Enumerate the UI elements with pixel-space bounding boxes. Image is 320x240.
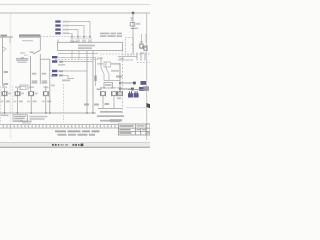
- connector lug lower (blue): [139, 87, 145, 91]
- wire: faint ground line right: [126, 107, 147, 109]
- switch contacts: [101, 68, 104, 74]
- wire: line into connector box: [128, 89, 143, 91]
- plug housing X4 (blue comb): [134, 91, 139, 97]
- wire: terminal 30 bus left segment: [0, 36, 13, 38]
- pressure switch B3 with caption: [16, 57, 29, 59]
- wire: top frame line upper: [0, 4, 150, 6]
- wire: feed drop from rail: [132, 13, 134, 54]
- label: text above control unit right: [100, 33, 122, 37]
- valve group Y2: [13, 87, 24, 114]
- wire: drop x87 to ground bus: [86, 51, 88, 114]
- label: highlighted legend box under bus: [13, 115, 28, 122]
- connector pins right column: [137, 53, 145, 61]
- label: gauge text x40.3: [42, 80, 48, 83]
- fuse F1 on feed: [131, 17, 134, 19]
- wire: branch to connector row upper: [120, 82, 134, 84]
- node: junction at 120,89: [119, 88, 121, 90]
- connector symbol row7: [59, 70, 63, 72]
- valve group Y4: [42, 86, 52, 113]
- label: blue link row6: [52, 60, 57, 62]
- label: text right of x95 wires lower: [97, 63, 103, 65]
- label: text after row8 step: [62, 80, 70, 82]
- wire: row5 line: [58, 56, 96, 58]
- label: gray part row3: [63, 29, 70, 31]
- wire: cluster bottom line: [104, 80, 120, 82]
- label: tag x30.4: [32, 73, 37, 75]
- label: marks near switch: [20, 52, 25, 54]
- wire: drop x93 to ground bus: [92, 51, 94, 114]
- wire: vertical feed x49.8: [49, 59, 51, 113]
- title block table: [119, 124, 151, 135]
- label: text in cluster: [111, 63, 120, 65]
- wire: terminal 30 bus caption segment: [19, 36, 41, 38]
- label: tag on x87 wire: [84, 104, 89, 106]
- label: ruler track numbers: [3, 126, 116, 127]
- wire: row3 to connector: [69, 30, 78, 39]
- section divider dashed x12.8: [12, 86, 14, 122]
- wire: lines under A1: [118, 56, 137, 58]
- wire: row4 to connector: [69, 33, 72, 38]
- label: document caption line 1: [55, 130, 100, 132]
- wire: right edge drop x122.5: [122, 44, 124, 114]
- pump motor M1: [117, 87, 123, 99]
- label: small note above switch: [22, 40, 33, 41]
- label: pin numbers: [70, 38, 92, 39]
- section divider dashed x63.5: [63, 84, 65, 122]
- wire: row1 to connector: [69, 22, 90, 39]
- section divider dashed x0.7: [0, 86, 2, 122]
- label: title block texts: [120, 125, 134, 127]
- label: small text above ruler left: [20, 121, 32, 122]
- wire: drop x79 below unit: [78, 51, 80, 60]
- node: junction at 120,83: [119, 82, 121, 84]
- label: text left of sub-lines: [119, 58, 124, 60]
- wire: valve feeds right of A1: [141, 34, 143, 43]
- toolbar glyphs: [52, 144, 83, 147]
- label: wire tag on left drop lower: [4, 83, 9, 85]
- node: ticks at dashed bus crossings: [71, 36, 91, 38]
- label: tag on x120: [116, 76, 122, 78]
- connector box right (gray): [143, 86, 149, 91]
- wire: dashed stub right: [137, 62, 150, 64]
- current track ruler: [0, 123, 119, 125]
- wire: dashed harness line: [55, 59, 98, 61]
- viewer toolbar band: [0, 142, 150, 147]
- label: tick text under valves: [140, 52, 144, 54]
- wire: bus under control unit: [58, 53, 98, 55]
- connector lug upper (blue): [141, 81, 147, 85]
- switch S1 contact: [39, 37, 41, 50]
- connector X2 small box bottom-left: [20, 85, 28, 90]
- label: gray part row1: [63, 21, 70, 23]
- wire: verticals in cluster: [100, 57, 102, 68]
- wire: sub bus under sensors: [98, 108, 122, 110]
- wire: right feed x120: [119, 63, 121, 95]
- label: blue link row2: [55, 24, 60, 26]
- fuse F2 terminal ticks on left drop: [3, 46, 5, 48]
- wire: row8 line with step: [63, 75, 74, 78]
- label: small text under row6: [58, 64, 65, 66]
- label: center bottom caption rows: [100, 111, 122, 113]
- label: terminal text left of bus: [1, 35, 8, 37]
- label: blue link row3: [55, 28, 60, 30]
- wire: branch to connector row lower: [120, 88, 132, 90]
- label: gray part row4: [63, 32, 70, 34]
- label: text inside control unit: [78, 45, 95, 47]
- paper crease: [10, 14, 12, 138]
- label: tag on x93 wire: [94, 104, 99, 106]
- ground bus W1: [0, 112, 96, 114]
- wire: link between valves: [140, 47, 147, 49]
- label: text above title block: [110, 119, 122, 120]
- label: gauge text x30.4: [32, 80, 38, 83]
- label: tiny text at valves: [140, 41, 144, 42]
- label: gray part row2: [63, 25, 70, 27]
- wire: left feed drop: [3, 37, 5, 86]
- wire: top frame line (terminal 30 rail): [0, 12, 150, 14]
- wire: row7 line: [58, 70, 87, 72]
- label: blue link row5: [52, 56, 57, 58]
- connector terminal marks lower: [131, 88, 134, 91]
- valve group Y1: [0, 87, 11, 114]
- label: blue link row8: [52, 74, 57, 76]
- connector symbol row8: [59, 75, 63, 77]
- switch S2 box: [104, 62, 111, 67]
- wire: dashed harness right: [100, 53, 150, 55]
- wire: vertical feed x30.4: [29, 56, 31, 91]
- wire: jog y59.2: [40, 58, 50, 60]
- label: blue link row4: [55, 32, 60, 34]
- label: small text near x95 lower: [97, 89, 102, 91]
- connector symbol row6: [59, 61, 63, 63]
- label: gauge text x49.8: [51, 85, 55, 87]
- label: vertical text right of x93: [95, 76, 97, 82]
- wire: row6 line: [63, 61, 93, 63]
- label: text right of x95 wires upper: [97, 58, 103, 60]
- node: junction dots on ground bus: [4, 112, 94, 113]
- wire: dashed continuation of bus: [41, 36, 91, 38]
- wire: vertical feed x40.3 lower: [39, 59, 41, 84]
- label: bus caption: [19, 34, 41, 36]
- connector terminal marks upper: [133, 82, 136, 85]
- connector pins X1 row above control unit: [58, 40, 91, 44]
- label: tiny text right of feed wire: [135, 28, 139, 30]
- wire: short stub x10: [9, 37, 11, 43]
- wire: drop x95.5: [95, 57, 97, 86]
- label: switch designator: [30, 51, 34, 53]
- label: text right of legend box: [30, 116, 48, 118]
- valve Y5: [140, 44, 143, 48]
- valve group Y3: [27, 87, 38, 114]
- control module dashed box A1: [126, 38, 134, 56]
- plug housing X3 (blue comb): [128, 91, 133, 97]
- control unit N51 box: [58, 42, 123, 50]
- frame: right border line: [146, 13, 148, 140]
- label: tag x49.8: [51, 75, 55, 77]
- label: tag x40.3: [42, 73, 47, 75]
- label: blue link row7: [52, 70, 57, 72]
- sensor group B1: [100, 87, 109, 109]
- ground W7 triangle right: [147, 103, 151, 108]
- label: wire tag on left drop upper: [4, 71, 9, 73]
- label: text left of legend box: [1, 115, 9, 117]
- wire: drop x72 below unit: [71, 51, 73, 60]
- label: small text above box: [72, 41, 77, 43]
- label: blue link row1: [55, 20, 60, 22]
- node: junction on rail at x133: [132, 12, 134, 14]
- label: document caption line 2: [58, 134, 96, 136]
- sensor group B2: [111, 87, 117, 109]
- resistor block R1: [104, 83, 113, 89]
- valve Y6: [144, 46, 147, 50]
- wire: row2 to connector: [69, 26, 84, 39]
